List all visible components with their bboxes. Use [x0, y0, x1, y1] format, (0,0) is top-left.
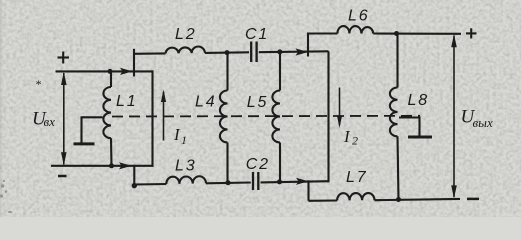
svg-text:L8: L8: [408, 92, 429, 109]
svg-text:L6: L6: [348, 8, 369, 25]
svg-text:2: 2: [352, 134, 358, 148]
svg-text:L1: L1: [116, 93, 137, 110]
svg-text:C1: C1: [245, 26, 269, 43]
svg-text:1: 1: [181, 133, 187, 147]
svg-text:вх: вх: [44, 114, 56, 129]
svg-text:L3: L3: [175, 158, 196, 175]
svg-text:*: *: [35, 77, 41, 91]
svg-text:C2: C2: [246, 156, 270, 173]
svg-text:L5: L5: [247, 94, 268, 111]
svg-text:вых: вых: [473, 115, 493, 130]
svg-text:L4: L4: [195, 94, 216, 111]
svg-text:L7: L7: [346, 169, 367, 186]
svg-text:L2: L2: [175, 26, 196, 43]
